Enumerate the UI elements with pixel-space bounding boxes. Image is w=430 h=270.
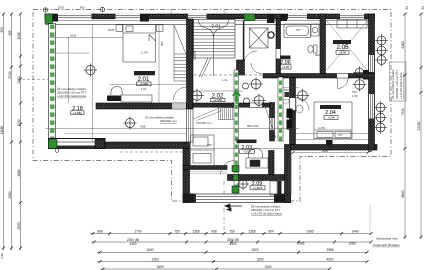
svg-text:2450: 2450	[118, 105, 125, 109]
green note text T4 rotated	[390, 69, 403, 99]
svg-text:757: 757	[296, 28, 301, 32]
svg-text:750: 750	[352, 90, 357, 94]
bed room 2.01	[116, 25, 163, 63]
svg-text:350: 350	[0, 27, 4, 33]
svg-text:900: 900	[315, 53, 320, 57]
column symbols	[84, 34, 388, 190]
svg-text:1,98: 1,98	[352, 94, 358, 98]
black block x140	[140, 14, 149, 22]
svg-text:900: 900	[160, 41, 164, 46]
stair west wall / protrusion left wall	[183, 19, 193, 203]
svg-text:904: 904	[268, 230, 274, 234]
svg-text:246/250 mm: 246/250 mm	[196, 121, 212, 125]
svg-text:+2,98: +2,98	[243, 150, 251, 154]
svg-text:757: 757	[338, 133, 343, 137]
room label 2.09	[250, 181, 265, 190]
svg-text:+ Ht 170 na šalov.hrana: + Ht 170 na šalov.hrana	[251, 212, 282, 216]
svg-text:22400: 22400	[417, 121, 421, 130]
svg-text:+2,98: +2,98	[339, 51, 347, 55]
window in top wall above bathtub	[288, 14, 307, 20]
svg-text:+2,980: +2,980	[73, 111, 82, 115]
protrusion bottom wall	[183, 194, 291, 203]
svg-text:2035: 2035	[70, 33, 77, 37]
closet next to stair wall	[174, 25, 187, 81]
window in top wall mid	[188, 14, 207, 20]
exterior left wall (new, green dashed)	[49, 24, 56, 143]
svg-text:+2,980: +2,980	[213, 98, 222, 102]
svg-text:4560: 4560	[8, 191, 12, 198]
kitchen counter 2.05	[337, 20, 367, 29]
section arrow protrusion	[225, 204, 242, 211]
tiny texts above top wall	[58, 6, 85, 10]
svg-text:4300: 4300	[129, 242, 136, 246]
wash basin circle	[268, 32, 274, 38]
svg-text:vnútorných Žb stĺpov: vnútorných Žb stĺpov	[373, 242, 400, 247]
interior wall B (2.01/2.18 divider)	[96, 103, 187, 109]
window in top wall above bed	[116, 14, 141, 20]
tiny dim texts	[70, 28, 358, 162]
room label 2.06	[280, 56, 291, 70]
new green wall x278	[278, 77, 283, 141]
svg-text:24: 24	[421, 6, 425, 10]
svg-text:2,98: 2,98	[0, 253, 4, 259]
svg-text:1730: 1730	[17, 119, 21, 126]
svg-text:2060: 2060	[17, 76, 21, 83]
svg-text:+ Ht 170m šalov.hrana: + Ht 170m šalov.hrana	[57, 94, 86, 98]
bed room 2.04	[314, 102, 352, 139]
interior wall G	[290, 78, 296, 145]
svg-text:846: 846	[268, 158, 273, 162]
svg-text:998: 998	[97, 230, 103, 234]
right wing bottom wall	[291, 140, 378, 151]
bottom dimension row 2	[91, 241, 371, 243]
svg-text:4300: 4300	[229, 242, 236, 246]
svg-text:Vyhotovana mka: Vyhotovana mka	[376, 237, 398, 241]
door leaf diagonals room 2.02	[194, 108, 223, 121]
svg-text:24: 24	[405, 6, 409, 10]
axis line B (dash-dot x224)	[223, 10, 225, 232]
wall F stub at landing	[237, 60, 245, 75]
svg-text:2700: 2700	[134, 230, 141, 234]
green lintel block x244	[244, 14, 255, 21]
diagonal marks room 2.05	[327, 21, 367, 70]
bottom dim ticks	[92, 232, 373, 270]
svg-text:1365: 1365	[248, 230, 255, 234]
svg-text:750: 750	[229, 230, 235, 234]
svg-text:905: 905	[8, 30, 12, 36]
bottom dimension row 5	[100, 268, 330, 270]
svg-text:998 2430: 998 2430	[247, 124, 259, 128]
right dimension lines	[405, 14, 421, 239]
toilet	[308, 45, 317, 53]
interior wall F	[263, 74, 375, 79]
svg-text:2035: 2035	[108, 28, 115, 32]
axis line A (dash-dot x171)	[170, 10, 172, 14]
svg-text:1440: 1440	[351, 230, 358, 234]
room label 2.02	[211, 94, 226, 103]
svg-text:2985: 2985	[306, 230, 313, 234]
svg-text:2985: 2985	[326, 248, 333, 252]
note text T2	[145, 114, 177, 123]
interior wall x269.5 vertical	[270, 103, 275, 142]
bottom dimension row 1	[90, 233, 371, 235]
dark block at F/right wall junction	[363, 70, 369, 80]
bottom dimension row 4	[97, 261, 367, 263]
door arcs	[174, 51, 349, 175]
room label 2.18	[71, 106, 84, 115]
svg-text:1300: 1300	[151, 258, 158, 262]
dark wall piece x278 protrusion	[278, 181, 282, 195]
shower cabin	[249, 28, 268, 48]
svg-text:4,88: 4,88	[140, 125, 146, 129]
green stair arrow	[233, 92, 240, 105]
svg-text:7340: 7340	[401, 108, 405, 115]
extension line right of protrusion	[291, 150, 293, 195]
roof overhang outline (dash-dot frame)	[33, 10, 391, 202]
svg-text:908: 908	[211, 230, 217, 234]
room label 2.03	[237, 140, 257, 154]
window W in top wall left	[58, 14, 92, 20]
svg-text:2680: 2680	[17, 169, 21, 176]
protrusion wall vert x268.5	[269, 151, 275, 175]
svg-text:1985: 1985	[348, 241, 355, 245]
black block after green	[53, 14, 59, 22]
bed in protrusion room 2.03	[191, 135, 215, 166]
plant/basin left wall 2.04	[296, 105, 303, 113]
svg-text:900: 900	[207, 143, 212, 147]
protrusion right wall	[285, 145, 291, 203]
black block x280	[280, 14, 287, 21]
svg-text:1,234: 1,234	[141, 51, 148, 55]
svg-text:11060: 11060	[0, 125, 4, 134]
svg-text:2030: 2030	[17, 222, 21, 229]
striped grille below wall H	[219, 108, 239, 120]
svg-text:1500: 1500	[156, 265, 163, 269]
chimney blocks	[287, 109, 293, 119]
svg-text:1500: 1500	[251, 248, 258, 252]
svg-text:+1,98 B: +1,98 B	[253, 186, 263, 190]
svg-text:+2,980: +2,980	[139, 82, 148, 86]
desk and chair in 2.03	[246, 149, 268, 169]
svg-text:2.01: 2.01	[211, 24, 221, 30]
protrusion wall seg1	[183, 166, 227, 170]
elevation marker bottom right wing	[368, 148, 372, 152]
svg-text:+ Ht 170 šalov.hrana: + Ht 170 šalov.hrana	[399, 72, 403, 99]
svg-text:1365: 1365	[192, 230, 199, 234]
svg-text:2030: 2030	[58, 6, 65, 10]
staircase	[194, 20, 236, 78]
room label 2.01	[134, 71, 155, 91]
exterior right wall	[369, 14, 375, 150]
interior wall H	[193, 103, 270, 107]
interior dimension lines	[22, 24, 368, 153]
svg-text:+2,98: +2,98	[327, 116, 335, 120]
interior wall E	[320, 14, 326, 77]
svg-text:1985: 1985	[297, 241, 304, 245]
exterior bottom-left wing wall	[48, 134, 189, 153]
bottom right note	[373, 237, 400, 247]
left dimension lines	[4, 14, 21, 250]
thin wall x243.5	[243, 21, 245, 60]
svg-text:250x500 mm: 250x500 mm	[160, 119, 177, 123]
new green wall mid x234.5	[232, 70, 239, 193]
green corner block top-left	[45, 14, 53, 24]
svg-text:5740: 5740	[8, 71, 12, 78]
bathtub	[284, 24, 311, 38]
exterior top wall	[45, 14, 375, 24]
svg-text:+2,98: +2,98	[282, 65, 290, 69]
cupboard in 2.09	[270, 181, 277, 195]
svg-text:1,01: 1,01	[222, 78, 228, 82]
elevation circle top x102	[100, 7, 104, 11]
ticks on y152.5 dim line	[292, 151, 370, 154]
svg-text:1500: 1500	[264, 265, 271, 269]
room label 2.04	[320, 105, 341, 120]
window in top wall right	[340, 14, 364, 20]
stair cut dashed line	[194, 74, 263, 76]
svg-text:4500: 4500	[326, 258, 333, 262]
svg-text:8840: 8840	[401, 190, 405, 197]
desk in 2.18	[107, 87, 152, 103]
green note text T1	[57, 86, 87, 98]
elevation circle top-left	[43, 8, 47, 12]
protrusion main cross wall	[190, 171, 285, 180]
svg-text:1908: 1908	[17, 32, 21, 39]
svg-text:905: 905	[80, 6, 85, 10]
svg-text:1500: 1500	[256, 258, 263, 262]
bottom-left tiny marks	[0, 253, 4, 259]
svg-text:18x178: 18x178	[193, 50, 197, 60]
room label 2.05	[333, 40, 351, 55]
black block x267	[267, 14, 275, 23]
svg-text:4,04: 4,04	[141, 87, 147, 91]
svg-text:1500: 1500	[146, 248, 153, 252]
svg-text:4,250: 4,250	[318, 126, 325, 130]
bottom dim texts	[97, 230, 358, 269]
bottom dimension row 3	[97, 251, 367, 253]
svg-text:848: 848	[284, 88, 289, 92]
interior wall D	[276, 19, 281, 77]
extension line bottom right	[369, 205, 371, 232]
svg-text:750: 750	[174, 230, 180, 234]
svg-text:2985: 2985	[322, 149, 329, 153]
washing machine	[311, 24, 319, 36]
green note text T3	[251, 204, 282, 216]
svg-text:6160: 6160	[401, 41, 405, 48]
micro blocks near green wall	[285, 92, 290, 97]
